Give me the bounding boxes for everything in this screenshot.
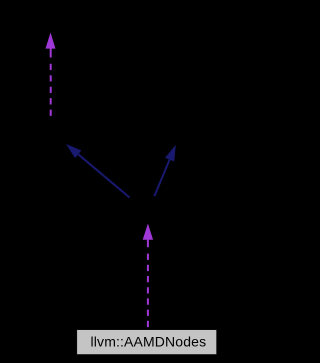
svg-text:llvm::AAMDNodes: llvm::AAMDNodes bbox=[91, 334, 207, 350]
